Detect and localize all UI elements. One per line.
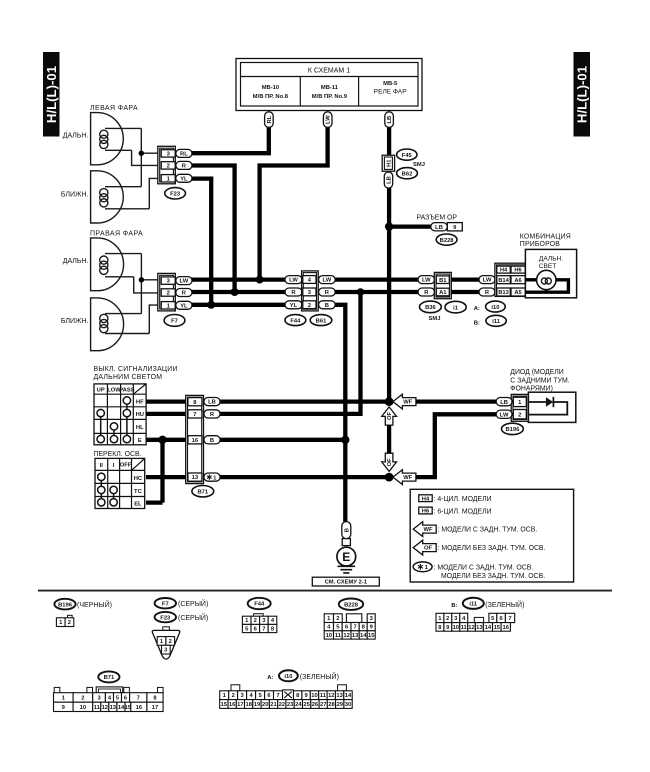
wire R from F23 pin 2 right and down to R-row junction xyxy=(190,166,235,293)
svg-text:25: 25 xyxy=(303,702,310,708)
svg-text:10: 10 xyxy=(311,693,317,699)
svg-text:2: 2 xyxy=(518,412,521,418)
junction box K SCHEMAM 1 xyxy=(236,59,422,111)
svg-text:i11: i11 xyxy=(469,602,478,608)
svg-text:МОДЕЛИ БЕЗ ЗАДН. ТУМ. ОСВ.: МОДЕЛИ БЕЗ ЗАДН. ТУМ. ОСВ. xyxy=(441,573,545,580)
diode pin 2 cell xyxy=(513,410,526,419)
svg-text:LW: LW xyxy=(323,278,332,284)
left high-beam filament xyxy=(100,128,142,150)
left low-beam filament xyxy=(100,187,150,209)
header H4 cell xyxy=(497,266,511,274)
svg-text:UP: UP xyxy=(97,388,105,394)
pin B14 cell xyxy=(497,276,511,284)
bottom connector i11 oval xyxy=(463,598,484,609)
svg-text:II: II xyxy=(100,463,104,469)
svg-text:МВ-11: МВ-11 xyxy=(321,85,339,91)
svg-text:СМ. СХЕМУ 2-1: СМ. СХЕМУ 2-1 xyxy=(325,580,368,586)
bottom connector F23 oval xyxy=(155,612,176,622)
wire EL row stub xyxy=(146,500,163,504)
F7 pin 1 cell xyxy=(161,302,175,310)
svg-text:SMJ: SMJ xyxy=(413,162,425,168)
svg-text:БЛИЖН.: БЛИЖН. xyxy=(61,191,89,198)
svg-text:13: 13 xyxy=(110,705,117,711)
switch table high-beam (dimmer) xyxy=(94,384,146,445)
legend arrow OF xyxy=(413,540,436,555)
pin A1 cell xyxy=(436,288,449,296)
ground pin lower block xyxy=(342,539,350,546)
svg-text:7: 7 xyxy=(262,626,265,632)
cluster tag R xyxy=(479,288,495,296)
svg-text:A:: A: xyxy=(267,675,273,681)
F7 pin 2 cell xyxy=(161,289,175,297)
reference box SM SCHEMU 2-1 xyxy=(312,577,379,586)
svg-text:F23: F23 xyxy=(160,615,171,621)
svg-text:LW: LW xyxy=(180,279,189,285)
wire B from middle connector down to ground junction xyxy=(334,305,345,522)
connector pin RL under MB-10 xyxy=(265,112,274,128)
pin 4 cell xyxy=(303,276,316,284)
svg-text:16: 16 xyxy=(192,438,199,444)
pin B1 cell xyxy=(436,276,449,284)
switch contacts table 1 xyxy=(97,397,131,443)
B71 pin 16 cell xyxy=(188,436,202,444)
bottom connector B228 oval xyxy=(339,599,363,610)
right low-beam filament xyxy=(100,314,150,334)
svg-text:F7: F7 xyxy=(171,319,178,325)
wire LW from MB-11 down to LW-row junction xyxy=(260,124,328,280)
svg-text:B228: B228 xyxy=(440,238,455,244)
option arrow OF up at junction 1 xyxy=(382,407,397,425)
pin LB below H1 xyxy=(384,172,392,188)
svg-text:LW: LW xyxy=(326,115,332,124)
svg-text:F7: F7 xyxy=(162,601,169,607)
svg-text:СВЕТ: СВЕТ xyxy=(539,263,557,270)
svg-text:: МОДЕЛИ БЕЗ ЗАДН. ТУМ. ОС: : МОДЕЛИ БЕЗ ЗАДН. ТУМ. ОСВ. xyxy=(438,545,546,552)
wire R between connector i1 and cluster tags xyxy=(451,290,481,294)
svg-text:2: 2 xyxy=(81,695,84,701)
svg-text:OF: OF xyxy=(387,458,393,467)
svg-text:i11: i11 xyxy=(492,319,501,325)
wire E row: switch to pin 16 B and on to ground wire xyxy=(146,438,345,442)
svg-text:H1: H1 xyxy=(387,159,393,167)
svg-text:H/L(L)-01: H/L(L)-01 xyxy=(44,66,59,123)
connector B71 oval xyxy=(192,486,214,497)
svg-text:H4: H4 xyxy=(500,268,508,274)
right headlight low-beam lamp outline xyxy=(91,298,124,351)
pin A5 cell xyxy=(511,288,525,296)
svg-text:15: 15 xyxy=(368,633,375,639)
connector i10/i11 body at cluster xyxy=(495,263,527,296)
bottom connector F44 pinout xyxy=(242,614,276,633)
junction 2 HC/*1 xyxy=(385,473,394,482)
svg-text:12: 12 xyxy=(328,693,334,699)
pin B13 cell xyxy=(497,288,511,296)
svg-text:LB: LB xyxy=(208,400,216,406)
svg-text:2: 2 xyxy=(446,616,449,622)
svg-text:18: 18 xyxy=(245,702,252,708)
svg-text:H6: H6 xyxy=(422,509,430,515)
legend arrow WF xyxy=(413,522,436,537)
svg-text:2: 2 xyxy=(336,616,339,622)
svg-text:B196: B196 xyxy=(505,427,520,433)
F23 pin 1 cell xyxy=(161,175,175,183)
svg-text:7: 7 xyxy=(276,693,279,699)
B71 pin 13 cell xyxy=(188,473,202,481)
wire junction 1 to diode pin 1 xyxy=(405,399,500,403)
svg-text:B71: B71 xyxy=(104,675,115,681)
connector B61 oval xyxy=(310,315,332,326)
svg-text:B: B xyxy=(210,438,214,444)
svg-text:PASS: PASS xyxy=(119,388,134,394)
separator line xyxy=(38,590,612,592)
svg-text:HC: HC xyxy=(134,476,143,482)
wire LW row from middle connector to instrument cluster xyxy=(334,277,420,281)
svg-text:17: 17 xyxy=(152,705,158,711)
svg-text:11: 11 xyxy=(320,693,327,699)
svg-text:ФОНАРЯМИ): ФОНАРЯМИ) xyxy=(510,385,553,392)
svg-text:23: 23 xyxy=(287,702,294,708)
connector F45 xyxy=(397,149,417,160)
connector B228 xyxy=(436,234,457,245)
svg-text:HF: HF xyxy=(136,400,144,406)
connector B71 body xyxy=(186,395,204,483)
svg-text:12: 12 xyxy=(468,625,474,631)
svg-text:WF: WF xyxy=(423,527,432,533)
svg-text:B: B xyxy=(325,303,329,309)
svg-text:i10: i10 xyxy=(491,305,499,311)
svg-text:С ЗАДНИМИ ТУМ.: С ЗАДНИМИ ТУМ. xyxy=(510,377,569,384)
svg-text:F44: F44 xyxy=(254,602,265,608)
wire YL from F23 pin 1 right and down to YL-row junction xyxy=(190,179,211,305)
connector B36/i1 body xyxy=(434,272,451,298)
svg-text:F45: F45 xyxy=(402,153,413,159)
svg-text:B228: B228 xyxy=(344,602,359,608)
F44 tag YL left xyxy=(285,301,302,309)
wire HF row: switch to pin 8 LB and on to junction 1 xyxy=(146,399,389,403)
svg-text:OF: OF xyxy=(424,546,433,552)
connector B62 xyxy=(397,168,418,179)
ground symbol xyxy=(338,566,356,573)
junction LB / razem OP xyxy=(385,222,393,230)
svg-text:RL: RL xyxy=(180,152,188,158)
pin A6 cell xyxy=(511,276,525,284)
svg-text:ДАЛЬНИМ СВЕТОМ: ДАЛЬНИМ СВЕТОМ xyxy=(94,374,163,381)
svg-text:14: 14 xyxy=(360,633,367,639)
left title bar H/L(L)-01 xyxy=(43,52,60,137)
svg-text:F23: F23 xyxy=(170,192,181,198)
bottom connector F44 oval xyxy=(248,598,271,609)
tag LB at razem OP xyxy=(431,223,448,231)
connector F44/B61 body xyxy=(302,271,319,311)
instrument cluster box xyxy=(525,249,576,297)
svg-text:15: 15 xyxy=(221,702,228,708)
svg-text:B61: B61 xyxy=(316,318,327,324)
svg-text:B: B xyxy=(344,528,350,532)
svg-text:2: 2 xyxy=(167,164,170,170)
wire into high-beam indicator xyxy=(525,278,538,281)
junction YL row / YL feed xyxy=(207,301,215,309)
svg-text:ДАЛЬН.: ДАЛЬН. xyxy=(63,258,89,265)
wire LW row from F7 pin 3 to middle connector xyxy=(190,277,286,281)
wire OF stub between option arrows xyxy=(387,424,391,455)
svg-text:LW: LW xyxy=(422,278,431,284)
left headlight high-beam lamp outline xyxy=(91,113,124,165)
svg-text:YL: YL xyxy=(180,303,188,309)
wire node to F23 pin 3 xyxy=(141,152,158,154)
svg-text:2: 2 xyxy=(308,303,311,309)
svg-text:РЕЛЕ ФАР: РЕЛЕ ФАР xyxy=(374,89,408,96)
B71 tag LB xyxy=(204,398,220,406)
svg-text:26: 26 xyxy=(312,702,319,708)
svg-text:B13: B13 xyxy=(498,290,509,296)
svg-text:A6: A6 xyxy=(514,278,522,284)
svg-text:БЛИЖН.: БЛИЖН. xyxy=(61,318,89,325)
svg-text:10: 10 xyxy=(453,625,459,631)
svg-text:A1: A1 xyxy=(439,290,447,296)
svg-text:WF: WF xyxy=(403,475,412,481)
diode tag LW xyxy=(496,410,512,418)
svg-text:E: E xyxy=(138,438,142,444)
tag LW at B36 xyxy=(418,276,435,284)
svg-text:14: 14 xyxy=(345,693,352,699)
diode symbol xyxy=(546,397,554,407)
connector H1 on LB wire xyxy=(382,155,394,171)
svg-text:ВЫКЛ. СИГНАЛИЗАЦИИ: ВЫКЛ. СИГНАЛИЗАЦИИ xyxy=(94,366,178,373)
svg-text:7: 7 xyxy=(193,412,196,418)
legend H6 tag xyxy=(419,507,492,515)
left headlight low-beam lamp outline xyxy=(91,171,124,223)
svg-text:МВ-5: МВ-5 xyxy=(383,81,398,87)
svg-text:19: 19 xyxy=(254,702,261,708)
svg-text:LB: LB xyxy=(435,225,443,231)
svg-text:HU: HU xyxy=(136,412,144,418)
connector B196 oval xyxy=(502,423,524,434)
svg-text:14: 14 xyxy=(485,625,492,631)
svg-text:B:: B: xyxy=(474,320,480,326)
B71 tag R xyxy=(204,410,220,418)
ground terminal E xyxy=(337,547,356,566)
svg-text:30: 30 xyxy=(345,702,351,708)
svg-text:EL: EL xyxy=(134,502,142,508)
svg-text:TC: TC xyxy=(134,489,143,495)
svg-text:29: 29 xyxy=(337,702,344,708)
F23 tag RL xyxy=(176,149,192,157)
F7 pin 3 cell xyxy=(161,277,175,285)
switch table lighting selector xyxy=(95,458,145,508)
junction R row / switch drop xyxy=(357,288,365,296)
svg-text:17: 17 xyxy=(237,702,243,708)
svg-text:A:: A: xyxy=(474,306,480,312)
svg-text:: 6-ЦИЛ. МОДЕЛИ: : 6-ЦИЛ. МОДЕЛИ xyxy=(434,509,492,516)
B71 tag B xyxy=(204,436,220,444)
F44 tag R left xyxy=(285,288,302,296)
svg-text:28: 28 xyxy=(328,702,335,708)
F7 tag R xyxy=(176,289,192,297)
svg-text:10: 10 xyxy=(326,633,332,639)
F44 tag LW left xyxy=(285,276,302,284)
svg-text:13: 13 xyxy=(336,693,343,699)
junction E row xyxy=(158,436,166,444)
svg-text:LW: LW xyxy=(500,412,509,418)
svg-text:13: 13 xyxy=(352,633,359,639)
svg-text:М/В ПР. No.8: М/В ПР. No.8 xyxy=(253,94,289,100)
node left headlight xyxy=(139,151,144,156)
svg-text:OF: OF xyxy=(387,412,393,421)
svg-text:H6: H6 xyxy=(514,268,522,274)
svg-text:LB: LB xyxy=(500,400,508,406)
bottom connector B196 oval xyxy=(54,599,75,610)
B71 tag *1 xyxy=(204,473,220,481)
connector pin LW under MB-11 xyxy=(323,112,332,128)
svg-text:: МОДЕЛИ С ЗАДН. ТУМ. ОСВ.: : МОДЕЛИ С ЗАДН. ТУМ. ОСВ. xyxy=(434,564,534,571)
svg-text:B71: B71 xyxy=(197,489,208,495)
wire LW between connector i1 and cluster tags xyxy=(451,277,481,281)
svg-text:B196: B196 xyxy=(58,602,73,608)
B61 tag R right xyxy=(319,288,336,296)
bottom connector B196 pinout xyxy=(56,615,73,626)
B61 tag B right xyxy=(319,301,336,309)
wire YL row from F7 pin 1 to middle connector xyxy=(190,303,286,307)
svg-text:YL: YL xyxy=(180,176,188,182)
wire branch to RAZEM OP tag xyxy=(389,224,433,228)
svg-text:24: 24 xyxy=(295,702,302,708)
svg-text:: 4-ЦИЛ. МОДЕЛИ: : 4-ЦИЛ. МОДЕЛИ xyxy=(434,496,492,503)
F23 pin 3 cell xyxy=(161,150,175,158)
wire RL from MB-10 down-left to connector F23 pin 3 xyxy=(190,124,269,153)
option arrow OF down at junction 2 xyxy=(382,453,397,471)
svg-text:i10: i10 xyxy=(284,674,292,680)
ground pin B pill xyxy=(342,522,351,539)
svg-text:(ЧЕРНЫЙ): (ЧЕРНЫЙ) xyxy=(77,600,112,609)
svg-text:B14: B14 xyxy=(498,278,509,284)
svg-text:H/L(L)-01: H/L(L)-01 xyxy=(575,66,590,123)
right headlight high-beam lamp outline xyxy=(91,238,124,291)
diode box xyxy=(528,392,575,422)
junction LW row / LW feed xyxy=(256,276,264,284)
F7 tag LW xyxy=(176,277,192,285)
svg-text:E: E xyxy=(342,550,350,564)
diode internal wiring xyxy=(528,402,567,415)
svg-text:ДИОД (МОДЕЛИ: ДИОД (МОДЕЛИ xyxy=(510,369,563,376)
svg-text:LW: LW xyxy=(483,278,492,284)
connector i10 oval xyxy=(486,301,506,312)
svg-text:ДАЛЬН.: ДАЛЬН. xyxy=(63,133,89,140)
svg-text:WF: WF xyxy=(403,400,412,406)
wire R row from middle connector to instrument cluster xyxy=(334,290,420,294)
right title bar H/L(L)-01 xyxy=(574,52,591,137)
tag R at B36 xyxy=(418,288,435,296)
svg-text:15: 15 xyxy=(494,625,501,631)
svg-text:МВ-10: МВ-10 xyxy=(262,85,279,91)
header H6 cell xyxy=(511,266,525,274)
wire indicator loop back to pin A5 xyxy=(525,280,568,292)
legend *1 oval xyxy=(413,562,545,580)
svg-text:7: 7 xyxy=(353,625,356,631)
wire right low-beam filament bottom to F7 pin 1 xyxy=(149,305,158,333)
svg-text:21: 21 xyxy=(270,702,277,708)
wire right high-beam filament bottom to F7 pin 2 xyxy=(134,277,159,293)
high-beam indicator lamp xyxy=(537,270,556,289)
bottom connector F7 oval xyxy=(155,598,176,608)
junction B row / ground wire xyxy=(341,436,349,444)
svg-text:H4: H4 xyxy=(422,496,430,502)
legend box xyxy=(410,489,573,582)
F23 tag YL xyxy=(176,174,192,182)
svg-text:HL: HL xyxy=(136,425,144,431)
svg-text:(СЕРЫЙ): (СЕРЫЙ) xyxy=(178,599,208,608)
wire HU row: switch to pin 7 xyxy=(146,412,192,416)
pin 3 cell xyxy=(303,288,316,296)
svg-text:ДАЛЬН.: ДАЛЬН. xyxy=(539,255,563,262)
connector F23 body xyxy=(158,146,176,184)
svg-text:20: 20 xyxy=(262,702,268,708)
wire left high-beam filament bottom to F23 pin 2 xyxy=(132,150,159,165)
junction R row / R feed xyxy=(231,288,239,296)
diode pin 1 cell xyxy=(513,397,526,406)
switch contacts table 2 xyxy=(98,473,118,506)
wire left high-beam filament to node/dot xyxy=(140,128,142,186)
svg-text:F44: F44 xyxy=(290,318,301,324)
wire LB from MB-5 down to junction 1 xyxy=(387,124,391,402)
bottom connector i11 pinout xyxy=(436,613,515,631)
bottom connector F7/F23 pinout (triangle) xyxy=(152,627,180,659)
svg-text:2: 2 xyxy=(68,620,71,626)
wire R drop from R-row junction down to switch pin 7 xyxy=(206,292,361,414)
svg-text:К СХЕМАМ 1: К СХЕМАМ 1 xyxy=(308,68,350,75)
legend H4 tag xyxy=(419,495,492,503)
connector i11 oval xyxy=(486,315,506,326)
svg-text:B36: B36 xyxy=(425,305,436,311)
svg-text:2: 2 xyxy=(254,618,257,624)
connector F7 oval xyxy=(164,315,185,327)
bottom connector i10 pinout xyxy=(220,685,352,709)
svg-text:: МОДЕЛИ С ЗАДН. ТУМ. ОСВ.: : МОДЕЛИ С ЗАДН. ТУМ. ОСВ. xyxy=(438,527,538,534)
svg-text:27: 27 xyxy=(320,702,326,708)
B71 pin 8 cell xyxy=(188,398,202,406)
option arrow WF at junction 2 xyxy=(393,470,416,485)
bottom connector B71 oval xyxy=(98,671,119,682)
svg-text:10: 10 xyxy=(80,705,86,711)
svg-text:2: 2 xyxy=(232,693,235,699)
wire R row from F7 pin 2 to middle connector xyxy=(190,290,286,294)
B61 tag LW right xyxy=(319,276,336,284)
wire node to F7 pin 3 xyxy=(141,279,158,281)
svg-text:16: 16 xyxy=(229,702,236,708)
svg-text:2: 2 xyxy=(169,639,172,645)
svg-text:16: 16 xyxy=(502,625,509,631)
svg-text:7: 7 xyxy=(137,695,140,701)
F23 tag R xyxy=(176,161,192,169)
bottom connector i10 oval xyxy=(279,670,298,681)
svg-text:М/В ПР. No.9: М/В ПР. No.9 xyxy=(312,94,348,100)
svg-text:OFF: OFF xyxy=(120,463,132,469)
svg-text:11: 11 xyxy=(94,705,101,711)
svg-text:LB: LB xyxy=(387,176,393,184)
svg-text:7: 7 xyxy=(508,616,511,622)
svg-text:12: 12 xyxy=(343,633,349,639)
connector pin LB under MB-5 xyxy=(385,112,394,128)
wire HC row: switch to pin 13 and on to junction 2 xyxy=(146,475,389,479)
svg-text:РАЗЪЕМ OP: РАЗЪЕМ OP xyxy=(417,215,458,222)
wire E to HC/EL vertical link xyxy=(160,440,164,503)
svg-text:13: 13 xyxy=(192,475,199,481)
svg-text:(ЗЕЛЕНЫЙ): (ЗЕЛЕНЫЙ) xyxy=(485,600,524,609)
B71 pin 7 cell xyxy=(188,410,202,418)
svg-text:i1: i1 xyxy=(453,305,459,311)
wire junction 2 to diode pin 2 xyxy=(405,414,500,477)
svg-text:11: 11 xyxy=(461,625,468,631)
wire right high-beam filament to node/dot xyxy=(140,254,142,314)
